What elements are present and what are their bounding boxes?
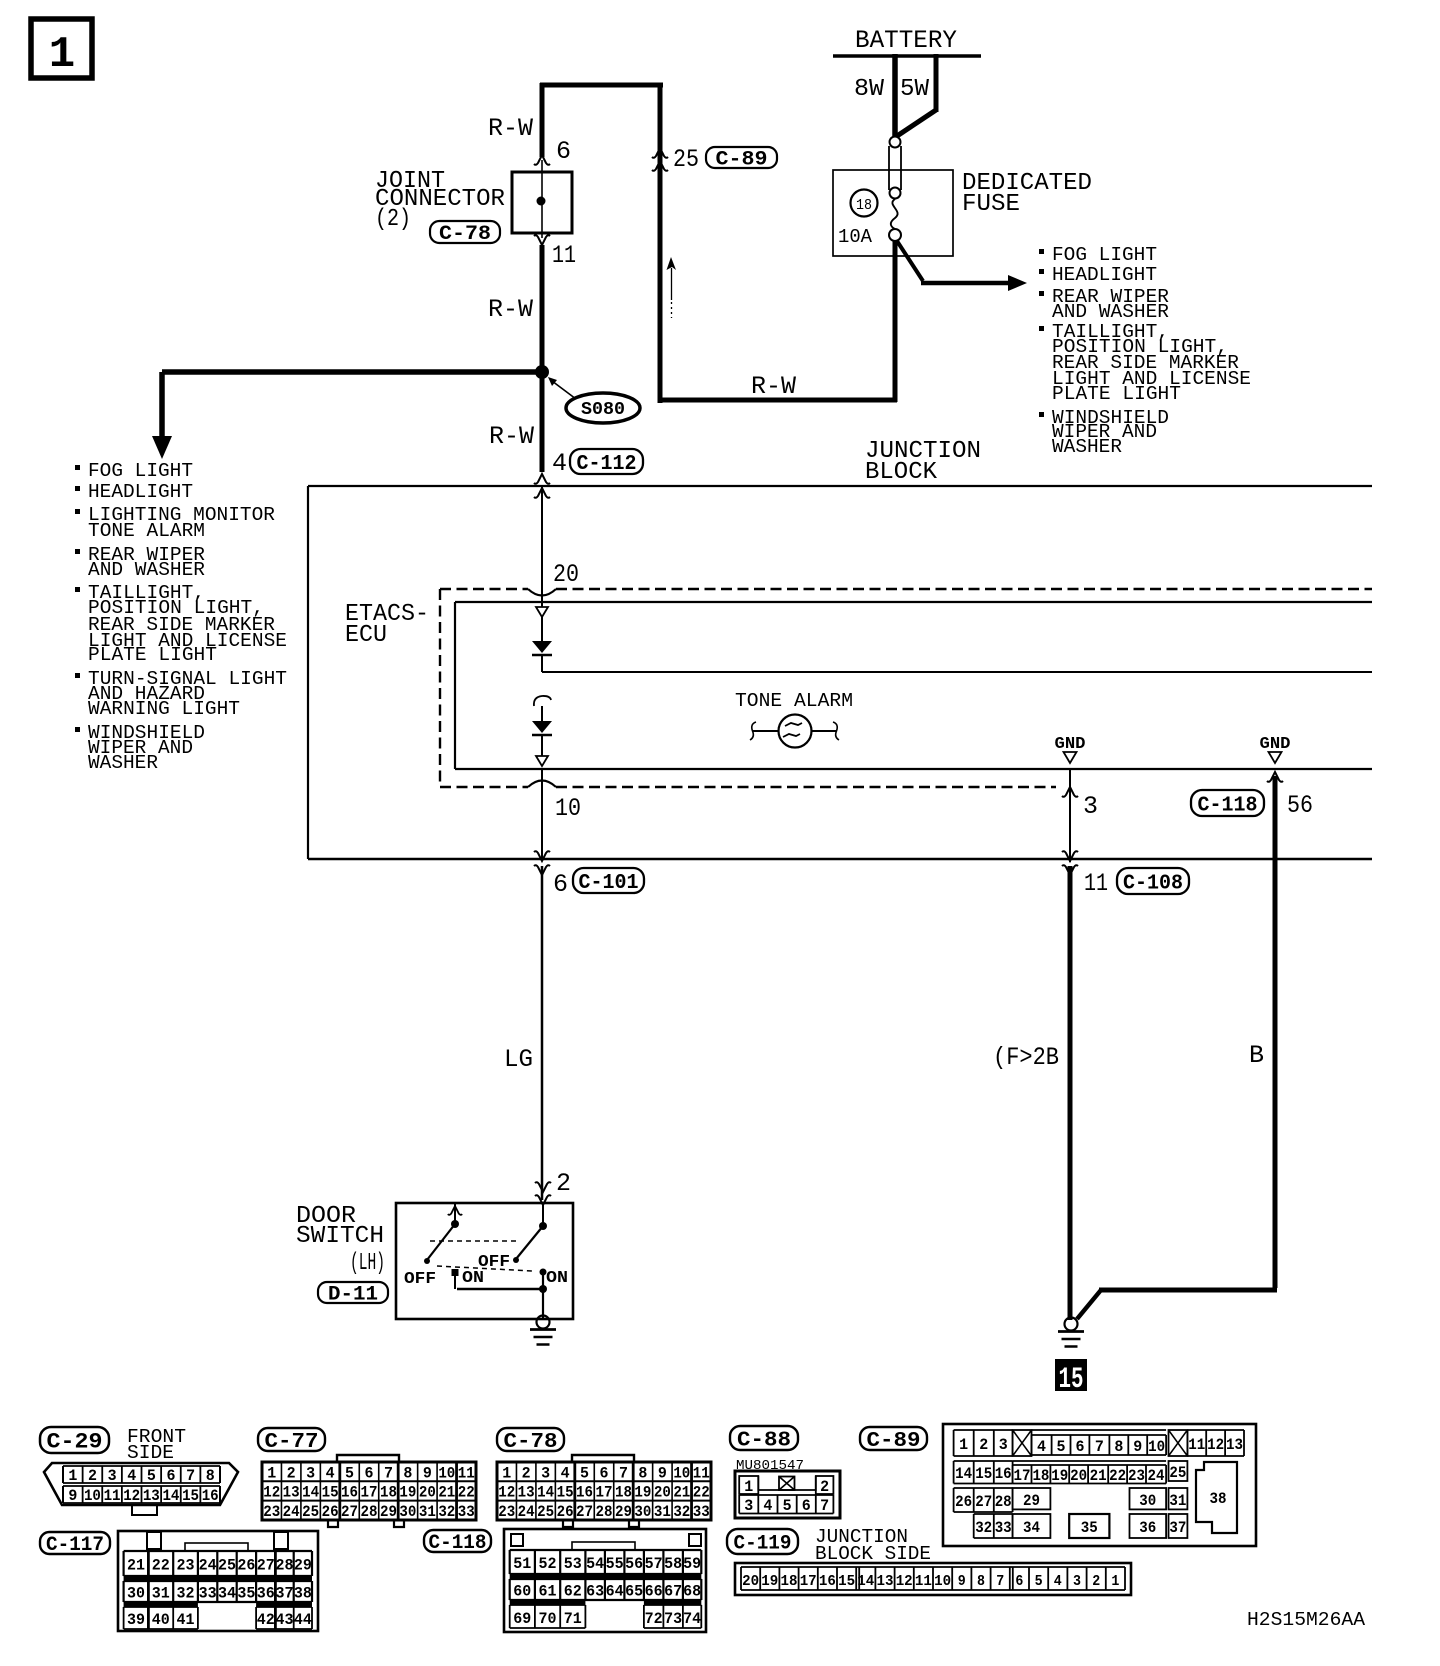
svg-text:38: 38 — [294, 1585, 312, 1603]
svg-text:29: 29 — [380, 1503, 397, 1521]
svg-text:30: 30 — [634, 1503, 651, 1521]
svg-text:GND: GND — [1055, 734, 1086, 753]
svg-text:7: 7 — [619, 1464, 628, 1482]
svg-text:27: 27 — [576, 1503, 593, 1521]
svg-text:25: 25 — [673, 145, 699, 174]
svg-text:8: 8 — [977, 1573, 985, 1590]
svg-text:S080: S080 — [581, 400, 625, 420]
svg-text:4: 4 — [1054, 1573, 1062, 1590]
svg-text:15: 15 — [557, 1484, 574, 1502]
svg-text:74: 74 — [683, 1610, 701, 1628]
svg-text:44: 44 — [294, 1611, 312, 1629]
svg-text:12: 12 — [123, 1487, 140, 1505]
svg-text:16: 16 — [341, 1484, 358, 1502]
svg-text:R-W: R-W — [488, 114, 533, 143]
svg-text:27: 27 — [341, 1503, 358, 1521]
svg-text:C-77: C-77 — [265, 1431, 319, 1454]
svg-text:17: 17 — [1014, 1467, 1031, 1485]
svg-text:73: 73 — [664, 1610, 682, 1628]
svg-text:70: 70 — [539, 1610, 557, 1628]
svg-text:R-W: R-W — [489, 422, 534, 451]
svg-text:9: 9 — [658, 1464, 667, 1482]
svg-text:13: 13 — [877, 1573, 894, 1590]
svg-text:18: 18 — [380, 1484, 397, 1502]
svg-text:2: 2 — [522, 1464, 531, 1482]
svg-text:33: 33 — [199, 1585, 217, 1603]
svg-text:33: 33 — [458, 1503, 475, 1521]
svg-text:2: 2 — [820, 1478, 829, 1496]
svg-text:24: 24 — [518, 1503, 535, 1521]
svg-text:64: 64 — [606, 1583, 624, 1601]
svg-text:53: 53 — [564, 1555, 582, 1573]
svg-text:36: 36 — [1139, 1519, 1156, 1537]
svg-text:66: 66 — [645, 1583, 663, 1601]
svg-text:6: 6 — [1075, 1438, 1084, 1456]
svg-text:39: 39 — [127, 1611, 145, 1629]
svg-text:18: 18 — [1032, 1467, 1049, 1485]
svg-text:AND WASHER: AND WASHER — [1052, 301, 1169, 323]
svg-text:13: 13 — [518, 1484, 535, 1502]
svg-text:FOG LIGHT: FOG LIGHT — [1052, 244, 1157, 266]
svg-text:WASHER: WASHER — [1052, 436, 1122, 458]
svg-text:7: 7 — [384, 1464, 393, 1482]
svg-text:ON: ON — [546, 1269, 568, 1288]
svg-text:7: 7 — [996, 1573, 1004, 1590]
svg-text:6: 6 — [553, 870, 568, 899]
svg-text:2: 2 — [556, 1169, 571, 1198]
svg-text:FUSE: FUSE — [962, 191, 1020, 218]
svg-text:31: 31 — [419, 1503, 436, 1521]
svg-text:AND WASHER: AND WASHER — [88, 559, 205, 581]
svg-text:35: 35 — [237, 1585, 255, 1603]
svg-text:12: 12 — [498, 1484, 515, 1502]
svg-text:H2S15M26AA: H2S15M26AA — [1247, 1609, 1365, 1631]
svg-text:28: 28 — [995, 1493, 1012, 1511]
svg-text:2: 2 — [287, 1464, 296, 1482]
svg-text:10: 10 — [934, 1573, 951, 1590]
svg-text:58: 58 — [664, 1555, 682, 1573]
svg-text:19: 19 — [399, 1484, 416, 1502]
svg-text:4: 4 — [763, 1497, 772, 1515]
svg-text:21: 21 — [673, 1484, 690, 1502]
svg-text:14: 14 — [955, 1465, 972, 1483]
svg-text:71: 71 — [564, 1610, 582, 1628]
svg-text:31: 31 — [654, 1503, 671, 1521]
svg-text:65: 65 — [625, 1583, 643, 1601]
svg-text:9: 9 — [958, 1573, 966, 1590]
svg-text:11: 11 — [693, 1464, 710, 1482]
svg-text:7: 7 — [186, 1467, 195, 1485]
svg-text:29: 29 — [1023, 1492, 1040, 1510]
svg-text:14: 14 — [857, 1573, 874, 1590]
svg-text:41: 41 — [177, 1611, 195, 1629]
svg-text:5: 5 — [147, 1467, 156, 1485]
svg-text:23: 23 — [1128, 1467, 1145, 1485]
svg-text:C-78: C-78 — [439, 223, 491, 246]
svg-text:35: 35 — [1081, 1519, 1098, 1537]
svg-text:BLOCK: BLOCK — [865, 459, 938, 486]
svg-text:31: 31 — [152, 1585, 170, 1603]
svg-text:20: 20 — [419, 1484, 436, 1502]
svg-text:25: 25 — [302, 1503, 319, 1521]
svg-text:8W: 8W — [854, 76, 885, 103]
svg-text:3: 3 — [1073, 1573, 1081, 1590]
svg-text:1: 1 — [744, 1478, 753, 1496]
svg-text:C-119: C-119 — [734, 1533, 792, 1556]
svg-text:HEADLIGHT: HEADLIGHT — [88, 481, 193, 503]
svg-text:9: 9 — [423, 1464, 432, 1482]
svg-text:14: 14 — [162, 1487, 179, 1505]
svg-text:6: 6 — [1015, 1573, 1023, 1590]
svg-text:22: 22 — [693, 1484, 710, 1502]
svg-text:17: 17 — [596, 1484, 613, 1502]
svg-text:19: 19 — [1051, 1467, 1068, 1485]
svg-text:7: 7 — [820, 1497, 829, 1515]
svg-text:C-89: C-89 — [867, 1430, 921, 1453]
svg-text:14: 14 — [302, 1484, 319, 1502]
svg-text:28: 28 — [596, 1503, 613, 1521]
svg-text:4: 4 — [552, 449, 567, 478]
svg-text:12: 12 — [896, 1573, 913, 1590]
svg-text:67: 67 — [664, 1583, 682, 1601]
svg-text:11: 11 — [915, 1573, 932, 1590]
svg-text:24: 24 — [199, 1557, 217, 1575]
svg-text:21: 21 — [438, 1484, 455, 1502]
svg-text:20: 20 — [654, 1484, 671, 1502]
svg-text:32: 32 — [673, 1503, 690, 1521]
svg-text:3: 3 — [108, 1467, 117, 1485]
svg-text:15: 15 — [182, 1487, 199, 1505]
svg-text:8: 8 — [638, 1464, 647, 1482]
svg-text:C-112: C-112 — [577, 453, 637, 476]
svg-text:SIDE: SIDE — [127, 1442, 174, 1464]
svg-text:38: 38 — [1210, 1490, 1227, 1508]
svg-text:18: 18 — [856, 197, 872, 214]
svg-text:11: 11 — [1188, 1436, 1205, 1454]
svg-text:ECU: ECU — [345, 622, 387, 649]
svg-text:43: 43 — [276, 1611, 294, 1629]
svg-text:13: 13 — [1226, 1436, 1243, 1454]
svg-text:9: 9 — [1133, 1438, 1142, 1456]
svg-text:HEADLIGHT: HEADLIGHT — [1052, 264, 1157, 286]
svg-text:27: 27 — [975, 1493, 992, 1511]
svg-text:C-117: C-117 — [46, 1534, 104, 1557]
svg-text:5: 5 — [580, 1464, 589, 1482]
svg-text:(2): (2) — [375, 206, 411, 233]
svg-text:33: 33 — [693, 1503, 710, 1521]
svg-text:7: 7 — [1095, 1438, 1104, 1456]
svg-text:55: 55 — [606, 1555, 624, 1573]
svg-text:22: 22 — [1109, 1467, 1126, 1485]
svg-text:16: 16 — [819, 1573, 836, 1590]
svg-text:15: 15 — [975, 1465, 992, 1483]
svg-text:15: 15 — [838, 1573, 855, 1590]
svg-text:6: 6 — [600, 1464, 609, 1482]
svg-text:62: 62 — [564, 1583, 582, 1601]
svg-text:68: 68 — [683, 1583, 701, 1601]
svg-text:PLATE LIGHT: PLATE LIGHT — [88, 644, 217, 666]
svg-text:10A: 10A — [838, 226, 873, 248]
svg-text:1: 1 — [49, 30, 75, 80]
svg-text:30: 30 — [1139, 1492, 1156, 1510]
svg-text:25: 25 — [537, 1503, 554, 1521]
svg-text:13: 13 — [143, 1487, 160, 1505]
svg-text:32: 32 — [438, 1503, 455, 1521]
svg-text:24: 24 — [283, 1503, 300, 1521]
svg-text:56: 56 — [625, 1555, 643, 1573]
svg-text:BLOCK SIDE: BLOCK SIDE — [815, 1543, 931, 1565]
svg-text:15: 15 — [1059, 1363, 1084, 1397]
svg-text:21: 21 — [127, 1557, 145, 1575]
svg-text:32: 32 — [177, 1585, 195, 1603]
svg-text:C-29: C-29 — [47, 1430, 103, 1455]
svg-text:26: 26 — [557, 1503, 574, 1521]
svg-text:42: 42 — [257, 1611, 275, 1629]
svg-text:34: 34 — [1023, 1519, 1040, 1537]
svg-text:30: 30 — [399, 1503, 416, 1521]
svg-text:B: B — [1249, 1041, 1264, 1070]
svg-text:1: 1 — [1111, 1573, 1119, 1590]
svg-text:15: 15 — [322, 1484, 339, 1502]
svg-text:11: 11 — [458, 1464, 475, 1482]
svg-text:27: 27 — [257, 1557, 275, 1575]
svg-text:C-118: C-118 — [1198, 794, 1258, 817]
svg-text:14: 14 — [537, 1484, 554, 1502]
svg-text:37: 37 — [1169, 1519, 1186, 1537]
svg-text:17: 17 — [361, 1484, 378, 1502]
svg-text:52: 52 — [539, 1555, 557, 1573]
svg-text:3: 3 — [999, 1436, 1008, 1454]
svg-text:10: 10 — [673, 1464, 690, 1482]
svg-text:20: 20 — [1070, 1467, 1087, 1485]
svg-text:13: 13 — [283, 1484, 300, 1502]
svg-text:D-11: D-11 — [328, 1284, 378, 1307]
svg-text:LG: LG — [504, 1045, 533, 1074]
svg-text:28: 28 — [361, 1503, 378, 1521]
svg-text:(LH): (LH) — [350, 1250, 385, 1277]
svg-text:11: 11 — [552, 241, 576, 270]
svg-text:22: 22 — [152, 1557, 170, 1575]
svg-text:5: 5 — [783, 1497, 792, 1515]
svg-text:18: 18 — [781, 1573, 798, 1590]
svg-text:2: 2 — [1092, 1573, 1100, 1590]
svg-text:59: 59 — [683, 1555, 701, 1573]
svg-text:56: 56 — [1287, 791, 1313, 820]
svg-text:PLATE LIGHT: PLATE LIGHT — [1052, 383, 1181, 405]
svg-text:60: 60 — [513, 1583, 531, 1601]
svg-text:TONE ALARM: TONE ALARM — [735, 690, 853, 712]
svg-text:29: 29 — [615, 1503, 632, 1521]
svg-text:12: 12 — [1207, 1436, 1224, 1454]
svg-text:WARNING LIGHT: WARNING LIGHT — [88, 698, 240, 720]
svg-text:26: 26 — [955, 1493, 972, 1511]
svg-text:19: 19 — [761, 1573, 778, 1590]
svg-text:32: 32 — [975, 1519, 992, 1537]
svg-text:1: 1 — [68, 1467, 77, 1485]
svg-text:12: 12 — [263, 1484, 280, 1502]
svg-text:18: 18 — [615, 1484, 632, 1502]
svg-text:8: 8 — [206, 1467, 215, 1485]
svg-text:22: 22 — [458, 1484, 475, 1502]
svg-text:4: 4 — [1037, 1438, 1046, 1456]
svg-text:8: 8 — [403, 1464, 412, 1482]
svg-text:57: 57 — [645, 1555, 663, 1573]
svg-text:25: 25 — [218, 1557, 236, 1575]
svg-text:69: 69 — [513, 1610, 531, 1628]
svg-text:21: 21 — [1090, 1467, 1107, 1485]
svg-text:33: 33 — [995, 1519, 1012, 1537]
svg-text:61: 61 — [539, 1583, 557, 1601]
svg-text:72: 72 — [645, 1610, 663, 1628]
svg-text:16: 16 — [576, 1484, 593, 1502]
svg-text:11: 11 — [1084, 869, 1108, 898]
svg-text:4: 4 — [561, 1464, 570, 1482]
svg-text:63: 63 — [586, 1583, 604, 1601]
svg-text:40: 40 — [152, 1611, 170, 1629]
svg-text:C-78: C-78 — [504, 1431, 558, 1454]
svg-text:FOG LIGHT: FOG LIGHT — [88, 460, 193, 482]
svg-text:51: 51 — [513, 1555, 531, 1573]
svg-text:23: 23 — [263, 1503, 280, 1521]
svg-text:26: 26 — [237, 1557, 255, 1575]
svg-text:1: 1 — [959, 1436, 968, 1454]
svg-text:TONE ALARM: TONE ALARM — [88, 520, 205, 542]
svg-text:R-W: R-W — [488, 295, 533, 324]
svg-text:23: 23 — [498, 1503, 515, 1521]
svg-text:30: 30 — [127, 1585, 145, 1603]
svg-text:23: 23 — [177, 1557, 195, 1575]
svg-text:C-108: C-108 — [1123, 872, 1183, 895]
svg-text:26: 26 — [322, 1503, 339, 1521]
svg-text:3: 3 — [744, 1497, 753, 1515]
svg-text:(F>2B: (F>2B — [993, 1043, 1059, 1072]
svg-text:19: 19 — [634, 1484, 651, 1502]
svg-text:4: 4 — [127, 1467, 136, 1485]
svg-text:11: 11 — [104, 1487, 121, 1505]
svg-text:C-89: C-89 — [716, 149, 768, 172]
svg-text:29: 29 — [294, 1557, 312, 1575]
svg-text:1: 1 — [502, 1464, 511, 1482]
svg-text:4: 4 — [326, 1464, 335, 1482]
svg-text:9: 9 — [68, 1487, 77, 1505]
svg-text:5: 5 — [1057, 1438, 1066, 1456]
svg-text:SWITCH: SWITCH — [296, 1223, 384, 1250]
svg-text:C-118: C-118 — [429, 1532, 487, 1555]
svg-text:16: 16 — [995, 1465, 1012, 1483]
svg-text:OFF: OFF — [404, 1270, 436, 1289]
svg-text:C-101: C-101 — [579, 872, 639, 895]
svg-text:3: 3 — [306, 1464, 315, 1482]
svg-text:10: 10 — [555, 794, 581, 823]
svg-text:34: 34 — [218, 1585, 236, 1603]
svg-text:6: 6 — [802, 1497, 811, 1515]
svg-text:6: 6 — [365, 1464, 374, 1482]
svg-text:17: 17 — [800, 1573, 817, 1590]
svg-text:1: 1 — [267, 1464, 276, 1482]
svg-text:6: 6 — [556, 137, 571, 166]
svg-text:20: 20 — [553, 560, 579, 589]
svg-text:16: 16 — [202, 1487, 219, 1505]
svg-text:WASHER: WASHER — [88, 752, 158, 774]
svg-text:6: 6 — [166, 1467, 175, 1485]
svg-text:5W: 5W — [900, 76, 930, 103]
svg-text:2: 2 — [88, 1467, 97, 1485]
svg-text:36: 36 — [257, 1585, 275, 1603]
svg-text:3: 3 — [1083, 792, 1098, 821]
svg-text:54: 54 — [586, 1555, 604, 1573]
svg-text:R-W: R-W — [751, 372, 796, 401]
svg-text:31: 31 — [1169, 1492, 1186, 1510]
svg-text:10: 10 — [84, 1487, 101, 1505]
svg-text:GND: GND — [1260, 734, 1291, 753]
svg-text:28: 28 — [276, 1557, 294, 1575]
svg-text:8: 8 — [1114, 1438, 1123, 1456]
svg-text:BATTERY: BATTERY — [855, 26, 957, 55]
svg-text:C-88: C-88 — [737, 1429, 791, 1452]
svg-text:10: 10 — [438, 1464, 455, 1482]
svg-text:20: 20 — [742, 1573, 759, 1590]
svg-text:2: 2 — [979, 1436, 988, 1454]
svg-text:25: 25 — [1169, 1464, 1186, 1482]
svg-text:5: 5 — [1035, 1573, 1043, 1590]
svg-text:3: 3 — [541, 1464, 550, 1482]
svg-text:10: 10 — [1148, 1438, 1165, 1456]
svg-text:37: 37 — [276, 1585, 294, 1603]
svg-text:24: 24 — [1148, 1467, 1165, 1485]
svg-text:5: 5 — [345, 1464, 354, 1482]
